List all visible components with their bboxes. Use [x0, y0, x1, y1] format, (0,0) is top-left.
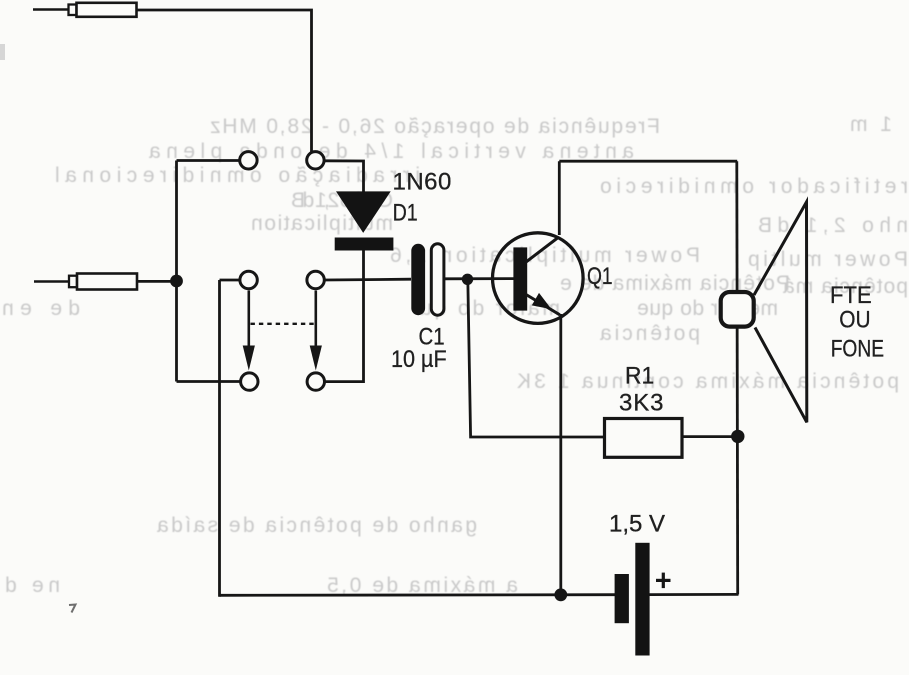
svg-text:ne d: ne d — [5, 574, 60, 597]
svg-text:Q1: Q1 — [587, 262, 613, 290]
svg-text:R1: R1 — [625, 362, 654, 389]
svg-text:melhor do que: melhor do que — [637, 297, 778, 320]
svg-text:de en: de en — [2, 297, 80, 320]
svg-text:retificador omnidirecio: retificador omnidirecio — [600, 175, 908, 198]
svg-text:10 µF: 10 µF — [391, 345, 447, 372]
svg-text:FONE: FONE — [831, 334, 884, 362]
svg-text:3K3: 3K3 — [619, 390, 664, 417]
svg-text:potência máxima continua 1 3K: potência máxima continua 1 3K — [517, 370, 899, 393]
svg-text:1,5 V: 1,5 V — [609, 511, 665, 538]
svg-text:Power multip: Power multip — [748, 248, 908, 271]
svg-text:OU: OU — [839, 306, 870, 333]
svg-text:nho 2,1 dB: nho 2,1 dB — [758, 214, 908, 237]
svg-text:potência: potência — [600, 322, 700, 345]
svg-text:1 m: 1 m — [850, 113, 892, 136]
svg-text:ganho de potência de saída: ganho de potência de saída — [157, 514, 477, 537]
svg-text:irradiação omnidirecional: irradiação omnidirecional — [55, 164, 420, 187]
svg-text:FTE: FTE — [830, 281, 872, 308]
svg-text:Frequência de operação 26,0 -: Frequência de operação 26,0 - 28,0 MHz — [210, 115, 660, 138]
svg-text:1N60: 1N60 — [393, 169, 452, 196]
svg-text:D1: D1 — [393, 199, 418, 226]
